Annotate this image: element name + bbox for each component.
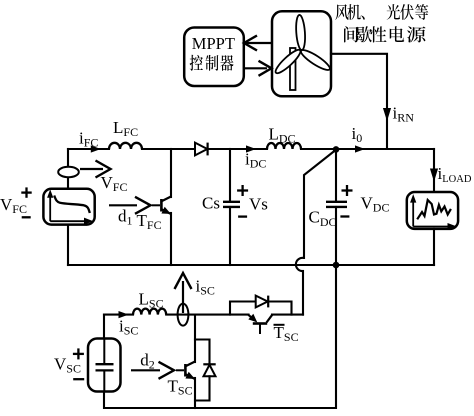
plus sign Vs: [237, 185, 248, 196]
arrow iSC measurement: [175, 273, 192, 313]
wire VSC top lead: [103, 315, 105, 339]
wire TSC diode branch bottom: [195, 376, 210, 400]
current sensor ellipse on SC wire: [178, 304, 189, 326]
wind turbine blades: [273, 15, 332, 76]
svg-text:MPPT: MPPT: [192, 34, 235, 53]
wire load bottom: [433, 229, 435, 265]
wire TSC diode branch top: [195, 340, 210, 365]
MPPT controller box U1: [184, 28, 244, 87]
diode DSC (antiparallel of TSC): [203, 364, 215, 376]
intermittent source box (wind turbine): [272, 11, 331, 96]
arrow wind->MPPT: [244, 36, 272, 51]
wire CDC bottom: [335, 207, 337, 265]
inductor LFC: [109, 143, 142, 149]
wire LSC to TSCbar: [166, 314, 248, 316]
overbar of TSCbar: [274, 324, 285, 326]
wire diode to LDC: [208, 148, 267, 150]
diode D1: [195, 143, 208, 156]
wire node A to SC leg (slant): [304, 151, 335, 259]
current arrow iFC: [91, 146, 99, 152]
fuel cell polarization curve: [54, 196, 90, 214]
label 风机、光伏等: [335, 4, 428, 20]
plus sign VFC: [21, 187, 31, 197]
junction node B: [333, 262, 340, 269]
wire TSC collector: [194, 315, 196, 362]
plus sign VSC: [73, 348, 84, 359]
wire SC bottom rail: [104, 265, 336, 408]
wire TSCbar diode branch right: [268, 302, 292, 315]
svg-text:Cs: Cs: [202, 194, 220, 213]
plus sign VDC: [342, 185, 353, 196]
wire VSC to LSC: [104, 314, 133, 316]
wind turbine tower: [290, 48, 296, 90]
current arrow iSC: [119, 312, 127, 318]
transistor TSC (IGBT): [176, 362, 195, 380]
wire LFC to diode: [142, 148, 195, 150]
minus sign VDC: [340, 215, 349, 217]
load waveform axes: [411, 196, 456, 230]
wire wind source to DC bus: [331, 54, 387, 149]
wire CDC top: [335, 149, 337, 201]
svg-text:Vs: Vs: [249, 195, 268, 214]
wire TSCbar to hop leg: [272, 314, 303, 316]
minus sign VFC: [22, 216, 31, 218]
capacitor CDC: [326, 202, 347, 207]
wire TSC emitter: [194, 378, 196, 408]
current arrow i0: [356, 146, 364, 152]
MPPT controller label 控制器: [190, 55, 234, 71]
diode DSCbar (antiparallel of TSCbar): [256, 296, 269, 308]
inductor LDC: [267, 143, 301, 149]
fuel cell source VFC box: [43, 189, 94, 225]
load waveform zigzag: [417, 200, 451, 219]
wire TFC emitter: [170, 213, 172, 265]
minus sign Vs: [238, 215, 247, 217]
transistor TSCbar (IGBT rotated): [248, 315, 272, 334]
current arrow iLOAD: [431, 169, 438, 180]
wire bottom rail: [68, 264, 434, 266]
wire VFC source to bottom rail: [67, 225, 69, 265]
supercap source VSC box: [88, 339, 121, 392]
wire TSCbar diode branch left: [230, 302, 256, 315]
wire TFC collector: [170, 149, 172, 197]
wire Cs bottom: [229, 207, 231, 265]
capacitor symbol in VSC: [96, 339, 114, 392]
wire Cs top: [229, 149, 231, 201]
wire left rail down to VFC source: [67, 149, 69, 189]
wire top rail left: [68, 148, 109, 150]
wire hop over bottom rail: [296, 258, 304, 271]
wire hop to TSCbar node: [302, 271, 304, 315]
wire LDC to load corner: [301, 148, 434, 150]
current arrow iRN: [384, 109, 391, 120]
wire load top: [433, 149, 435, 192]
arrow MPPT->wind: [244, 61, 272, 76]
gate arrow d2: [131, 362, 174, 379]
junction node A: [333, 146, 340, 153]
capacitor Cs: [223, 202, 240, 207]
label 间歇性电源: [344, 26, 426, 42]
gate arrow d1: [109, 197, 151, 214]
load box: [407, 192, 458, 229]
fuel cell V-I curve axes: [48, 191, 92, 224]
arrow VFC direction: [80, 161, 111, 178]
minus sign VSC: [73, 378, 84, 380]
current arrow iDC: [247, 146, 255, 152]
current sensor ellipse on VFC lead: [58, 167, 79, 177]
transistor TFC (IGBT): [152, 197, 171, 215]
inductor LSC: [133, 309, 166, 315]
